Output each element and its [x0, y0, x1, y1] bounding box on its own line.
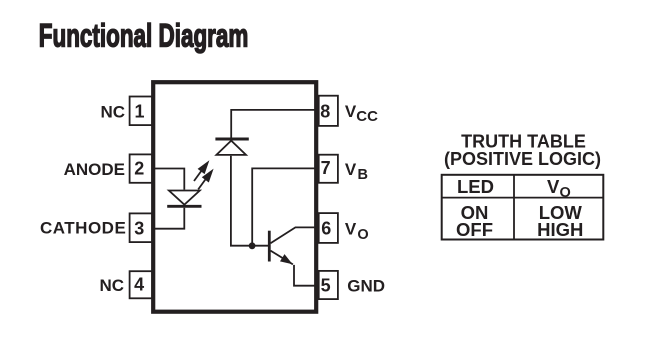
truth table cell HIGH [537, 219, 583, 240]
svg-text:8: 8 [320, 102, 330, 122]
photodiode D2 triangle [216, 141, 246, 155]
pin 4 box [130, 271, 153, 298]
truth table cell LOW [539, 202, 583, 223]
transistor Q1 collector + wire to pin 6 [271, 227, 316, 243]
svg-text:OFF: OFF [456, 219, 493, 240]
pin 3 box [130, 213, 153, 242]
truth table cell VO header [547, 176, 571, 201]
pin 5 label GND [347, 277, 385, 296]
svg-text:6: 6 [321, 218, 331, 238]
svg-text:Functional Diagram: Functional Diagram [39, 17, 249, 53]
svg-text:2: 2 [134, 159, 144, 179]
svg-text:V: V [345, 160, 357, 179]
pin 2 box [130, 154, 153, 182]
truth table heading line 2 [444, 149, 601, 169]
LED D1 triangle [169, 191, 200, 205]
svg-text:5: 5 [321, 275, 331, 295]
pin 7 label VB [345, 160, 368, 183]
transistor Q1 emitter [271, 251, 293, 265]
svg-text:B: B [358, 167, 368, 183]
svg-text:V: V [345, 102, 357, 121]
svg-text:1: 1 [134, 101, 144, 121]
svg-text:V: V [547, 176, 560, 197]
svg-text:4: 4 [134, 275, 144, 295]
pin 5 box [319, 271, 338, 299]
pin 8 box [319, 96, 338, 126]
truth table cell ON [461, 202, 489, 223]
light emission arrow 1 [194, 160, 209, 181]
svg-text:V: V [345, 220, 357, 239]
wire photodiode anode to base node [231, 156, 269, 246]
pin 1 box [130, 97, 153, 126]
svg-text:GND: GND [347, 277, 385, 296]
wire ANODE: pin 2 to LED anode [155, 169, 184, 190]
pin 7 box [319, 155, 338, 183]
truth table heading line 1 [461, 131, 586, 151]
svg-text:(POSITIVE LOGIC): (POSITIVE LOGIC) [444, 149, 601, 169]
wire VCC: pin 8 to photodiode cathode [231, 110, 315, 138]
wire VB: pin 7 to base node [252, 168, 315, 245]
pin 6 label VO [345, 220, 369, 243]
pin 2 label ANODE [64, 160, 125, 179]
wire emitter to pin 5 [294, 265, 315, 286]
truth table outer box [442, 175, 604, 240]
svg-text:O: O [357, 227, 368, 243]
svg-text:CC: CC [356, 108, 378, 125]
svg-text:NC: NC [99, 276, 124, 295]
pin 8 label VCC [345, 102, 378, 125]
transistor Q1 base bar [268, 231, 271, 262]
svg-text:CATHODE: CATHODE [40, 219, 126, 238]
truth table cell LED [457, 176, 494, 197]
pin 6 box [319, 213, 338, 243]
pin 4 label NC [99, 276, 124, 295]
LED D1 cathode bar [167, 205, 201, 208]
svg-text:O: O [560, 185, 571, 201]
light emission arrow 2 [198, 169, 213, 190]
truth table cell OFF [456, 219, 493, 240]
pin 1 label NC [100, 103, 125, 122]
wire CATHODE: LED cathode to pin 3 [155, 208, 184, 229]
truth table column divider [513, 175, 515, 240]
title Functional Diagram [39, 17, 249, 53]
svg-text:ANODE: ANODE [64, 160, 125, 179]
svg-text:HIGH: HIGH [537, 219, 583, 240]
junction dot at base node [249, 242, 256, 249]
svg-text:NC: NC [100, 103, 125, 122]
svg-text:LED: LED [457, 176, 494, 197]
truth table row divider [442, 197, 604, 199]
svg-text:3: 3 [134, 219, 144, 239]
svg-text:7: 7 [321, 158, 331, 178]
pin 3 label CATHODE [40, 219, 126, 238]
photodiode D2 cathode bar [215, 138, 248, 141]
IC body U1 [153, 82, 316, 312]
